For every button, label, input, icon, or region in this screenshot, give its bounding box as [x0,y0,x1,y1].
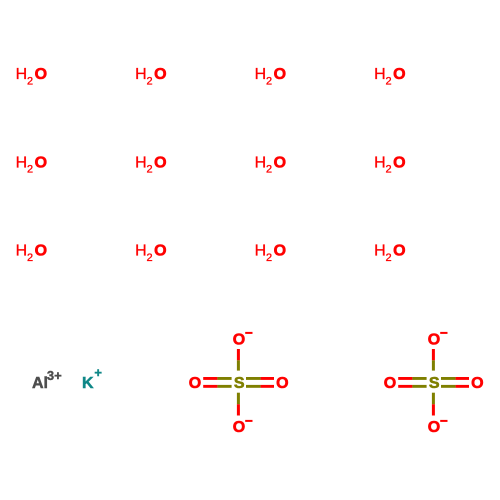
svg-text:O: O [393,66,405,83]
sulfate ion 1: S=O right double bond, lower line [246,385,274,388]
svg-text:2: 2 [27,252,33,264]
svg-text:2: 2 [266,252,272,264]
svg-text:H: H [16,154,28,171]
svg-text:Al: Al [32,375,48,392]
sulfate ion 2: sulfur atom S [429,375,440,392]
sulfate ion 2: S=O left double bond, lower line [398,385,426,388]
sulfate ion 2: S=O left double bond, upper line [398,377,426,380]
sulfate ion 1: bottom oxygen atom O- (with charge) [233,419,253,436]
svg-text:H: H [135,243,147,260]
sulfate ion 1: sulfur atom S [234,375,245,392]
svg-text:O: O [393,154,405,171]
sulfate ion 1: left oxygen atom O [189,375,201,392]
svg-text:O: O [384,375,396,392]
cation K+ potassium ion [82,365,102,392]
svg-text:O: O [393,243,405,260]
svg-text:O: O [189,375,201,392]
svg-text:H: H [255,154,267,171]
svg-text:O: O [35,66,47,83]
water molecule H2O #10 (row 3, col 2) [135,243,166,264]
svg-text:H: H [255,243,267,260]
sulfate ion 1: S-O top single bond [237,349,240,371]
sulfate ion 1: S-O bottom single bond [237,393,240,416]
svg-text:O: O [35,243,47,260]
svg-text:3+: 3+ [47,368,62,383]
water molecule H2O #12 (row 3, col 4) [374,243,405,264]
water molecule H2O #7 (row 2, col 3) [255,154,286,175]
water molecule H2O #8 (row 2, col 4) [374,154,405,175]
water molecule H2O #3 (row 1, col 3) [255,66,286,87]
sulfate ion 2: S-O top single bond [432,349,435,371]
sulfate ion 1: S=O left double bond, lower line [203,385,231,388]
svg-text:O: O [274,154,286,171]
svg-text:H: H [16,66,28,83]
svg-text:H: H [255,66,267,83]
water molecule H2O #4 (row 1, col 4) [374,66,405,87]
svg-text:H: H [374,66,386,83]
water molecule H2O #1 (row 1, col 1) [16,66,47,87]
svg-text:O: O [154,66,166,83]
svg-text:O: O [274,243,286,260]
water molecule H2O #2 (row 1, col 2) [135,66,166,87]
svg-text:H: H [135,66,147,83]
svg-text:2: 2 [147,75,153,87]
sulfate ion 1: S=O right double bond, upper line [246,377,274,380]
svg-text:2: 2 [147,164,153,176]
svg-text:S: S [429,375,440,392]
sulfate ion 2: left oxygen atom O [384,375,396,392]
svg-text:2: 2 [386,75,392,87]
water molecule H2O #6 (row 2, col 2) [135,154,166,175]
sulfate ion 1: top oxygen atom O- (with charge) [233,331,253,348]
svg-text:H: H [135,154,147,171]
sulfate ion 2: S=O right double bond, lower line [441,385,469,388]
water molecule H2O #9 (row 3, col 1) [16,243,47,264]
sulfate ion 1: S=O left double bond, upper line [203,377,231,380]
sulfate ion 2: right oxygen atom O [471,375,483,392]
sulfate ion 2: bottom oxygen atom O- (with charge) [428,419,448,436]
svg-text:2: 2 [386,252,392,264]
svg-text:K: K [82,375,94,392]
svg-text:2: 2 [266,75,272,87]
svg-text:O: O [428,331,440,348]
svg-text:O: O [233,331,245,348]
svg-text:2: 2 [147,252,153,264]
sulfate ion 1: right oxygen atom O [276,375,288,392]
sulfate ion 2: S=O right double bond, upper line [441,377,469,380]
svg-text:2: 2 [386,164,392,176]
svg-text:H: H [374,154,386,171]
svg-text:2: 2 [27,75,33,87]
svg-text:O: O [471,375,483,392]
water molecule H2O #11 (row 3, col 3) [255,243,286,264]
svg-text:2: 2 [27,164,33,176]
svg-text:O: O [35,154,47,171]
cation Al3+ aluminum ion [32,368,62,392]
svg-text:2: 2 [266,164,272,176]
svg-text:H: H [374,243,386,260]
sulfate ion 2: top oxygen atom O- (with charge) [428,331,448,348]
water molecule H2O #5 (row 2, col 1) [16,154,47,175]
svg-text:O: O [154,243,166,260]
svg-text:S: S [234,375,245,392]
svg-text:H: H [16,243,28,260]
sulfate ion 2: S-O bottom single bond [432,393,435,416]
svg-text:O: O [154,154,166,171]
svg-text:+: + [94,365,102,380]
svg-text:O: O [428,419,440,436]
svg-text:O: O [233,419,245,436]
svg-text:O: O [276,375,288,392]
svg-text:O: O [274,66,286,83]
